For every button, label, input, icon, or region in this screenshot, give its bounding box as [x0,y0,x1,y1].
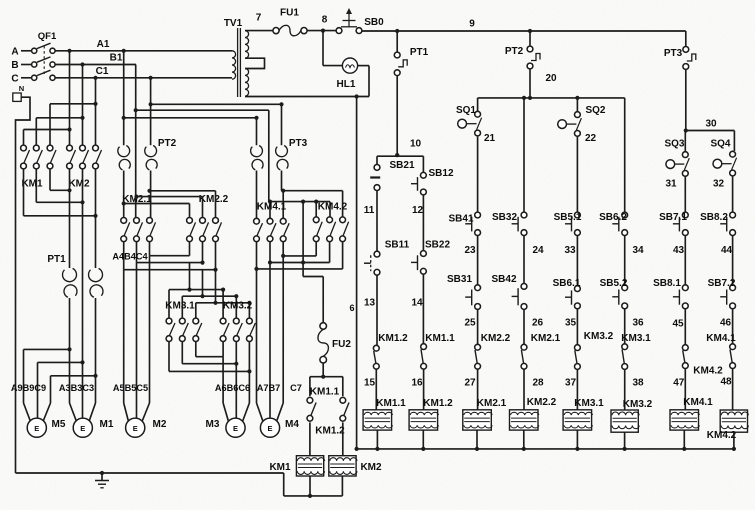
svg-text:6: 6 [349,303,354,313]
svg-text:SB7.2: SB7.2 [708,278,736,289]
svg-text:KM4.2: KM4.2 [318,202,348,213]
svg-text:A3B3C3: A3B3C3 [59,383,94,393]
svg-text:34: 34 [632,245,644,256]
svg-text:PT1: PT1 [47,254,66,265]
svg-text:KM4.1: KM4.1 [683,397,713,408]
svg-text:SB8.2: SB8.2 [700,212,728,223]
svg-text:SB22: SB22 [425,240,450,251]
svg-text:KM3.1: KM3.1 [574,398,604,409]
svg-text:KM3.2: KM3.2 [623,399,653,410]
svg-text:47: 47 [673,377,685,388]
svg-text:A1: A1 [97,39,110,50]
svg-text:SQ4: SQ4 [710,139,730,150]
svg-text:KM4.1: KM4.1 [706,333,736,344]
svg-text:SQ3: SQ3 [664,139,684,150]
svg-text:SB31: SB31 [447,274,472,285]
svg-text:23: 23 [464,245,476,256]
svg-text:SB0: SB0 [364,17,384,28]
svg-text:KM2.1: KM2.1 [477,398,507,409]
svg-text:QF1: QF1 [38,31,57,42]
svg-text:KM2: KM2 [68,179,90,190]
svg-text:KM4.2: KM4.2 [693,366,723,377]
svg-text:PT3: PT3 [289,138,308,149]
svg-text:M1: M1 [100,419,114,430]
svg-text:SB42: SB42 [491,274,516,285]
svg-text:SQ1: SQ1 [456,105,476,116]
svg-text:KM3.2: KM3.2 [584,331,614,342]
svg-text:KM3.1: KM3.1 [621,333,651,344]
svg-text:M2: M2 [153,419,167,430]
svg-text:A7B7: A7B7 [257,383,281,393]
svg-text:33: 33 [564,245,576,256]
svg-text:26: 26 [532,318,544,329]
svg-text:SB21: SB21 [389,160,414,171]
svg-text:KM1.1: KM1.1 [376,398,406,409]
svg-text:E: E [133,424,138,433]
svg-text:32: 32 [713,179,725,190]
svg-text:A6B6C6: A6B6C6 [215,383,250,393]
svg-text:11: 11 [364,205,375,216]
svg-text:SB41: SB41 [448,214,473,225]
svg-text:37: 37 [565,377,577,388]
svg-text:7: 7 [256,13,262,24]
svg-text:38: 38 [632,377,644,388]
svg-text:43: 43 [673,245,685,256]
svg-text:C1: C1 [96,66,109,77]
svg-text:FU1: FU1 [280,8,299,19]
svg-text:E: E [80,424,85,433]
svg-text:KM1.2: KM1.2 [378,333,408,344]
svg-text:KM2.2: KM2.2 [481,333,511,344]
svg-text:44: 44 [721,245,733,256]
svg-text:14: 14 [411,298,423,309]
svg-text:M5: M5 [52,419,66,430]
svg-text:SB7.1: SB7.1 [659,212,687,223]
svg-text:8: 8 [322,15,328,26]
svg-text:KM1.1: KM1.1 [310,387,340,398]
svg-text:KM1: KM1 [269,462,291,473]
svg-text:KM1.2: KM1.2 [423,398,453,409]
svg-text:E: E [233,424,238,433]
svg-text:30: 30 [705,119,717,130]
svg-text:A4B4C4: A4B4C4 [112,252,148,262]
svg-text:A: A [11,47,18,58]
svg-text:FU2: FU2 [332,339,351,350]
svg-text:SB8.1: SB8.1 [653,278,681,289]
svg-text:15: 15 [364,377,376,388]
svg-text:PT1: PT1 [410,47,429,58]
svg-text:SB32: SB32 [492,212,517,223]
svg-text:SB6.2: SB6.2 [599,212,627,223]
svg-text:KM1.2: KM1.2 [315,426,345,437]
svg-text:TV1: TV1 [224,18,243,29]
svg-text:KM4.2: KM4.2 [707,430,737,441]
svg-text:10: 10 [410,139,422,150]
svg-text:46: 46 [720,318,732,329]
svg-text:M3: M3 [206,419,220,430]
svg-text:12: 12 [412,205,424,216]
svg-text:25: 25 [464,318,476,329]
svg-text:13: 13 [364,298,376,309]
svg-text:B1: B1 [110,53,123,64]
svg-text:31: 31 [665,179,677,190]
svg-text:KM2.1: KM2.1 [531,333,561,344]
svg-text:C: C [11,74,18,85]
svg-text:KM2: KM2 [360,462,382,473]
svg-text:28: 28 [532,377,544,388]
svg-text:B: B [11,60,18,71]
svg-text:KM3.1: KM3.1 [165,301,195,312]
svg-text:35: 35 [565,318,577,329]
svg-text:36: 36 [632,318,644,329]
svg-text:SB5.1: SB5.1 [554,212,582,223]
svg-text:HL1: HL1 [337,79,356,90]
svg-text:KM1.1: KM1.1 [425,333,455,344]
svg-text:PT3: PT3 [664,48,683,59]
svg-text:A9B9C9: A9B9C9 [11,383,46,393]
svg-text:20: 20 [545,73,557,84]
svg-text:C7: C7 [290,383,302,393]
svg-text:SB5.2: SB5.2 [600,278,628,289]
svg-text:48: 48 [720,376,732,387]
svg-text:A5B5C5: A5B5C5 [113,383,148,393]
svg-text:9: 9 [469,19,475,30]
svg-text:24: 24 [532,245,544,256]
svg-text:SB12: SB12 [428,168,453,179]
svg-text:E: E [267,424,272,433]
svg-text:SQ2: SQ2 [585,105,605,116]
svg-text:M4: M4 [285,419,299,430]
svg-text:16: 16 [411,377,423,388]
svg-text:27: 27 [464,377,476,388]
svg-text:SB11: SB11 [385,240,410,251]
svg-text:KM2.2: KM2.2 [527,397,557,408]
svg-text:N: N [19,84,24,93]
svg-text:PT2: PT2 [505,46,524,57]
svg-text:PT2: PT2 [158,138,177,149]
svg-text:21: 21 [484,133,496,144]
svg-text:KM4.1: KM4.1 [257,202,287,213]
svg-text:E: E [34,424,39,433]
svg-text:22: 22 [585,133,597,144]
svg-text:45: 45 [672,319,684,330]
svg-text:SB6.1: SB6.1 [553,278,581,289]
svg-text:KM3.2: KM3.2 [223,301,253,312]
svg-text:KM1: KM1 [21,179,43,190]
